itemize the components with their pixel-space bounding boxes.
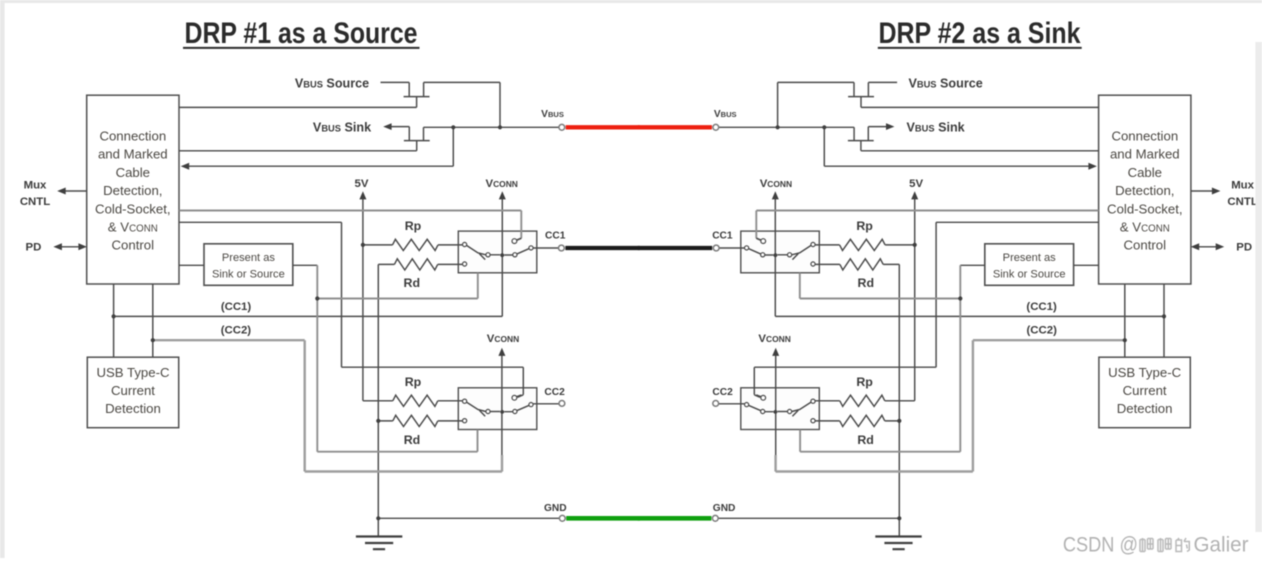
svg-text:Cable: Cable [1128,165,1162,180]
svg-text:VBUS: VBUS [714,109,737,120]
svg-text:DRP #2 as a Sink: DRP #2 as a Sink [879,17,1081,50]
svg-text:VBUS Sink: VBUS Sink [907,121,966,135]
svg-text:Cold-Socket,: Cold-Socket, [95,201,171,216]
svg-text:VCONN: VCONN [487,333,519,345]
svg-text:Mux: Mux [24,179,47,191]
svg-text:Detection: Detection [1117,401,1173,416]
svg-text:Sink or Source: Sink or Source [212,268,285,280]
svg-text:CNTL: CNTL [20,196,50,208]
svg-text:PD: PD [25,242,41,254]
svg-text:(CC2): (CC2) [221,325,252,337]
svg-text:Present as: Present as [222,252,275,264]
svg-text:DRP #1 as a Source: DRP #1 as a Source [185,17,418,50]
svg-text:CC1: CC1 [712,231,733,242]
svg-text:Galier: Galier [1194,534,1249,557]
svg-text:CC2: CC2 [544,387,565,398]
svg-text:Rd: Rd [857,433,874,447]
svg-text:VCONN: VCONN [485,178,517,190]
svg-text:VBUS: VBUS [541,109,564,120]
svg-text:Sink or Source: Sink or Source [993,268,1066,280]
svg-text:5V: 5V [909,178,923,190]
svg-text:Cable: Cable [116,165,150,180]
svg-text:USB Type-C: USB Type-C [1108,365,1182,380]
svg-text:Rd: Rd [404,433,421,447]
svg-text:USB Type-C: USB Type-C [96,365,170,380]
svg-text:(CC2): (CC2) [1027,325,1058,337]
svg-text:VCONN: VCONN [758,333,790,345]
svg-text:Cold-Socket,: Cold-Socket, [1107,201,1183,216]
svg-text:Mux: Mux [1231,179,1254,191]
svg-text:(CC1): (CC1) [221,301,252,313]
svg-text:and Marked: and Marked [1110,147,1180,162]
svg-text:Rd: Rd [404,276,421,290]
svg-text:GND: GND [713,503,736,514]
svg-text:5V: 5V [355,178,369,190]
svg-text:Control: Control [1124,238,1167,253]
svg-text:Rp: Rp [856,375,873,389]
svg-text:CNTL: CNTL [1227,196,1257,208]
svg-text:Rp: Rp [405,219,422,233]
svg-text:Detection: Detection [105,401,161,416]
svg-text:Rp: Rp [405,375,422,389]
svg-text:Current: Current [111,383,155,398]
svg-text:Current: Current [1123,383,1167,398]
svg-text:PD: PD [1236,242,1252,254]
svg-text:CSDN @: CSDN @ [1063,534,1138,557]
svg-text:Detection,: Detection, [103,183,162,198]
svg-text:Rd: Rd [858,276,875,290]
svg-text:VBUS Source: VBUS Source [295,76,369,90]
svg-text:CC2: CC2 [712,387,733,398]
svg-text:Detection,: Detection, [1115,183,1174,198]
svg-text:Present as: Present as [1003,252,1056,264]
svg-text:Connection: Connection [99,129,166,144]
svg-text:GND: GND [544,503,567,514]
svg-text:Control: Control [112,238,155,253]
svg-text:VBUS Source: VBUS Source [908,76,982,90]
svg-text:Rp: Rp [856,219,873,233]
svg-text:VBUS Sink: VBUS Sink [313,121,372,135]
svg-text:(CC1): (CC1) [1026,301,1057,313]
svg-text:CC1: CC1 [545,231,566,242]
svg-text:Connection: Connection [1111,129,1178,144]
svg-text:VCONN: VCONN [760,178,792,190]
svg-text:and Marked: and Marked [98,147,168,162]
